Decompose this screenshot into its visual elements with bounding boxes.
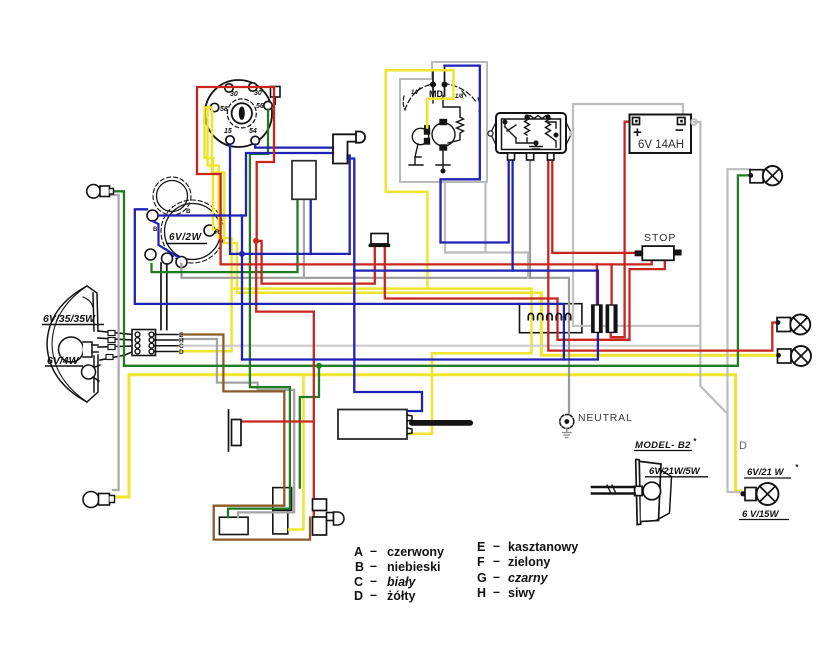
colour legend column 1: [354, 544, 444, 603]
svg-text:–: –: [370, 574, 377, 588]
wire red: ignition switch frame left/top/right to junction dot: [197, 87, 274, 241]
svg-text:–: –: [370, 559, 377, 573]
rectifier box B2 (cluster lower): [273, 510, 288, 534]
wire green: bus y=366 to top right lamp: [124, 175, 749, 365]
wire blue: bus y=359 and riser to bus y=270: [242, 271, 598, 360]
wire blue: lighting box pin to y=254 line: [310, 199, 312, 254]
label 6V/2W: [166, 232, 207, 244]
headlamp connector X1: [132, 330, 156, 356]
wire red: battery positive to fuse F2 bottom: [611, 122, 633, 338]
svg-text:NEUTRAL: NEUTRAL: [578, 412, 633, 424]
STOP switch: [642, 246, 674, 260]
wire yellow: bus y=288.6: [232, 287, 532, 290]
wire blue: dip component to magneto T1: [159, 153, 334, 216]
wire red: dot jog to horn relay left leg: [257, 241, 375, 284]
wire red: regulator output 2 to STOP switch feed: [552, 160, 634, 253]
magneto terminal T5: [176, 257, 187, 268]
label 6V/15W: [739, 509, 789, 520]
svg-text:F: F: [477, 555, 485, 569]
magneto / alternator G1 (6V/2W) outline: [153, 177, 224, 263]
svg-text:–: –: [493, 570, 500, 584]
svg-text:R: R: [215, 229, 220, 236]
ignition switch S1 terminal 30b: [249, 83, 257, 91]
wire white bialy: connector C bus y=346: [182, 345, 700, 347]
wire brown kasztanowy: connector E to cluster loop: [182, 335, 310, 540]
ignition switch S1 (body): [205, 80, 272, 147]
magneto terminal T4: [162, 253, 173, 264]
speedometer lamp (top left): [87, 185, 114, 199]
svg-text:14: 14: [411, 90, 418, 96]
headlamp pilot bulb (6V/4W): [82, 365, 96, 379]
battery negative gray dot: [691, 119, 697, 125]
regulator / rectifier box: [488, 113, 574, 153]
lighting switch box (top middle): [292, 161, 316, 200]
wire gray: lighting box pin to neutral bus: [303, 199, 305, 277]
wire red: horn relay right leg to STOP switch return: [385, 247, 665, 340]
switch terminal labels: [220, 90, 264, 135]
svg-text:żółty: żółty: [387, 589, 416, 603]
kill button bolt: [327, 512, 345, 525]
wire gray: MD box drop B: [445, 182, 486, 253]
wire red: condenser to plug column: [241, 420, 314, 422]
NEUTRAL indicator lamp: [560, 415, 574, 429]
regulator internals: [503, 115, 558, 149]
svg-text:6V/2W: 6V/2W: [169, 232, 203, 243]
svg-text:B: B: [186, 209, 191, 215]
svg-text:6V 14AH: 6V 14AH: [638, 139, 684, 151]
svg-text:15: 15: [224, 128, 232, 135]
wire gray: speedo lamp to pilot lamp ground: [110, 195, 119, 490]
svg-text:biały: biały: [387, 575, 417, 589]
svg-text:–: –: [370, 544, 377, 558]
wire red: regulator output 1 to right rear lamp: [548, 160, 778, 351]
headlamp shell (6V/35/35W): [47, 286, 98, 402]
connector pin stubs to letters: [154, 335, 178, 352]
wire yellow: block to right rear lamp bus y=355: [541, 293, 778, 356]
ignition switch S1 terminal 15: [226, 136, 234, 144]
svg-text:H: H: [477, 586, 486, 600]
wire green: magneto to lighting box pin: [152, 199, 298, 272]
wire green: bus tap down to box B1: [300, 366, 319, 488]
wire gray siwy: connector H to flasher box: [182, 339, 294, 517]
label 6V/21W/5W: [645, 466, 708, 477]
svg-text:A: A: [354, 545, 363, 559]
battery terminal +: [633, 118, 640, 125]
wire red: dot down to ignition cutout plugs: [256, 241, 314, 518]
wire gray: magneto to NEUTRAL indicator: [182, 264, 570, 414]
svg-text:MODEL- B2: MODEL- B2: [635, 440, 691, 451]
key symbol beside switch: [271, 87, 281, 105]
headlamp bulb holder details: [83, 342, 100, 381]
svg-text:D: D: [739, 440, 747, 452]
junction dot green: [316, 363, 322, 369]
tail lamp connector square: [635, 486, 643, 495]
battery BT1 6V 14AH: [630, 115, 692, 154]
svg-text:–: –: [493, 539, 500, 553]
label 6V/4W: [45, 355, 83, 367]
svg-text:6V/4W: 6V/4W: [47, 355, 80, 367]
horn relay K1: [371, 234, 388, 244]
wire blue: regulator terminal to MD switch loop: [441, 66, 509, 243]
wire blue: magneto T1 big loop bus y=304: [135, 209, 564, 359]
ignition cutout plug P2: [313, 517, 327, 535]
svg-text:30: 30: [254, 90, 262, 97]
wire yellow: switch 58 to magneto R terminal: [205, 108, 220, 230]
svg-text:G: G: [477, 571, 487, 585]
headlamp leads to connector: [98, 331, 132, 361]
label MODEL-B2: [634, 437, 697, 451]
magneto terminal R: [204, 225, 215, 236]
ignition cutout plug P1: [313, 499, 327, 511]
pilot lamp (bottom left): [83, 492, 115, 508]
wire blue: vertical through dot to bus y=359: [241, 216, 243, 360]
svg-text:czarny: czarny: [508, 571, 549, 585]
wire gray: riser to top right lamp: [728, 169, 751, 414]
svg-text:6V/21 W: 6V/21 W: [747, 467, 784, 478]
svg-text:B: B: [355, 560, 364, 574]
wire red: bus to fuse F1 top: [596, 264, 598, 305]
ground symbol below NEUTRAL lamp: [563, 429, 572, 438]
spark plug HT lead: [409, 420, 473, 426]
wire yellow: switch 58 strand 3 to bus y=292.8 and block: [212, 110, 541, 293]
ignition switch S1 terminal 58: [210, 103, 218, 111]
bottom right lamp 6V/21W: [740, 483, 778, 505]
handlebar switch MD housing (gray box): [400, 62, 487, 182]
middle right lamp 2 (tail): [776, 346, 811, 366]
magneto black leads to headlamp connector: [161, 263, 167, 330]
dip component S2 (beside switch): [333, 132, 365, 164]
ignition coil T1: [338, 410, 407, 440]
junction dot red: [253, 238, 259, 244]
svg-text:54: 54: [249, 128, 257, 135]
label 6V/35/35W: [42, 313, 104, 325]
magneto terminal T3: [145, 249, 156, 260]
fuse F2: [606, 305, 617, 332]
rectifier box B1 (cluster upper): [273, 488, 292, 511]
wire gray: regulator middle lug to neutral bus: [529, 160, 531, 278]
wire green: speedo lamp down to bus: [114, 191, 124, 365]
svg-text:kasztanowy: kasztanowy: [508, 540, 578, 554]
wire gray: MD box drop A: [445, 182, 528, 278]
wire yellow: MD drop to bus y=288.6: [386, 70, 428, 288]
svg-text:czerwony: czerwony: [387, 545, 444, 559]
wire red: main feed bus y=264 from switch to STOP switch: [197, 174, 652, 264]
svg-text:siwy: siwy: [508, 586, 535, 600]
connector block X2 (5-pin junction): [520, 304, 582, 333]
svg-text:58: 58: [220, 106, 228, 113]
svg-text:+: +: [633, 124, 642, 141]
svg-text:B: B: [153, 227, 158, 233]
magneto terminal T1: [147, 210, 158, 221]
svg-text:56: 56: [256, 103, 264, 110]
label 6V/21W: [744, 463, 799, 478]
svg-text:zielony: zielony: [508, 555, 550, 569]
wire yellow: parking bus y=375 pilot lamp to tail lamp: [116, 375, 741, 497]
wire red: bus to fuse F2 top: [610, 264, 612, 305]
colour legend column 2: [477, 539, 578, 600]
svg-text:1/8: 1/8: [455, 94, 464, 100]
svg-text:−: −: [675, 122, 684, 139]
wire gray: regulator tab down to bus y=326: [573, 134, 700, 326]
fuse F1: [591, 305, 602, 332]
tail lamp twin cable: [592, 485, 635, 494]
svg-text:6 V/15W: 6 V/15W: [742, 509, 779, 520]
wire gray: battery negative down, diagonal, to tail lamp: [694, 122, 741, 492]
svg-text:MD: MD: [429, 89, 443, 99]
wire blue: switch 54 east stub: [255, 145, 333, 148]
svg-text:–: –: [370, 588, 377, 602]
condenser / points (bottom left): [228, 410, 230, 451]
handlebar switch MD arc: [403, 84, 480, 112]
svg-text:D: D: [354, 589, 363, 603]
svg-text:niebieski: niebieski: [387, 560, 441, 574]
tail lamp assembly MODEL-B2: [636, 459, 672, 524]
top right lamp (position): [748, 166, 782, 185]
wire yellow: block to ignition coil via bus y=353: [407, 289, 532, 434]
wire yellow: bus tap down to cluster box B2: [289, 375, 304, 530]
middle right lamp 1 (stop): [776, 315, 811, 335]
svg-text:E: E: [477, 540, 485, 554]
wire yellow: switch 58 strand 2 to headlamp connector D: [182, 109, 232, 351]
svg-text:6V/21W/5W: 6V/21W/5W: [649, 466, 701, 477]
svg-text:–: –: [493, 554, 500, 568]
magneto internal blue link: [153, 221, 179, 257]
connector block X2 pins: [528, 314, 570, 320]
regulator terminal lugs: [508, 153, 554, 160]
headlamp connector pins: [135, 332, 154, 354]
svg-text:6V/35/35W: 6V/35/35W: [43, 313, 96, 325]
wire blue: dip component to ignition coil: [348, 159, 423, 412]
svg-text:–: –: [493, 585, 500, 599]
wire gray: regulator tab up to battery negative: [573, 104, 683, 134]
ignition switch S1 terminal 56: [264, 101, 272, 109]
svg-text:30: 30: [230, 91, 238, 98]
ignition switch S1 terminal 30a: [225, 84, 233, 92]
battery terminal -: [678, 118, 686, 125]
MD switch terminal stubs: [416, 66, 466, 96]
wire red: STOP switch stub to bus: [651, 260, 653, 264]
horn H1 and dynamo internals inside MD box: [409, 96, 464, 173]
wire green: switch 56 to flasher box: [228, 110, 290, 518]
ignition switch S1 terminal 54: [251, 136, 259, 144]
svg-text:C: C: [354, 575, 363, 589]
junction dot blue: [239, 251, 245, 257]
svg-text:STOP: STOP: [644, 232, 676, 244]
headlamp main bulb: [59, 337, 84, 362]
flasher box (bottom-left of cluster): [219, 517, 248, 534]
wire blue: regulator terminal 2 to bus y=270: [511, 160, 513, 271]
wire yellow: MD switch loop to horn terminal: [386, 70, 454, 127]
connector wire letters E H C D: [179, 332, 184, 356]
wire blue: switch 15 down and east to dip component: [230, 145, 350, 254]
svg-text:D: D: [179, 349, 184, 356]
